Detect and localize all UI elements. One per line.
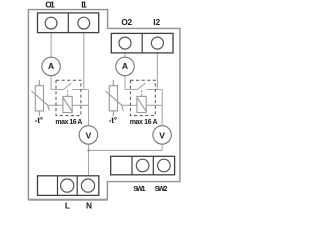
svg-text:SW2: SW2 xyxy=(155,186,168,193)
svg-text:I2: I2 xyxy=(153,17,160,27)
svg-text:max 16 A: max 16 A xyxy=(55,119,82,126)
svg-text:A: A xyxy=(122,61,128,71)
svg-text:I1: I1 xyxy=(81,0,87,10)
svg-text:-t°: -t° xyxy=(35,116,43,125)
svg-text:L: L xyxy=(65,201,70,211)
svg-text:V: V xyxy=(86,131,92,141)
svg-text:max 16 A: max 16 A xyxy=(130,119,158,126)
svg-text:O1: O1 xyxy=(45,0,55,10)
svg-text:SW1: SW1 xyxy=(133,186,145,193)
svg-text:A: A xyxy=(48,61,54,71)
svg-text:-t°: -t° xyxy=(109,116,117,125)
svg-text:O2: O2 xyxy=(121,17,132,27)
svg-text:V: V xyxy=(159,131,165,141)
svg-text:N: N xyxy=(86,201,92,211)
